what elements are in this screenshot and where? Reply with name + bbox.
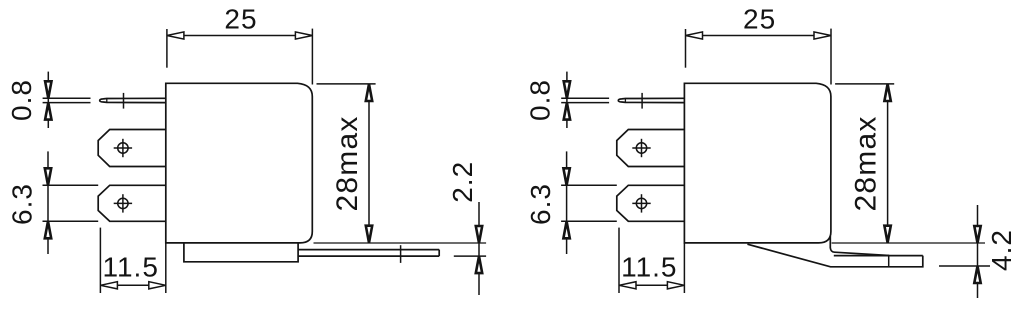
coil pin tip seam bbox=[106, 98, 108, 102]
svg-text:11.5: 11.5 bbox=[621, 252, 677, 283]
dim 11.5 right view: right arrow bbox=[667, 282, 684, 289]
dim 28max right view: dimension line bbox=[887, 84, 889, 243]
dim 2.2: dimension line bbox=[478, 202, 480, 295]
svg-text:0.8: 0.8 bbox=[525, 79, 556, 121]
lower quick-connect terminal (right view) bbox=[617, 185, 685, 221]
left view group bbox=[6, 3, 376, 293]
dim 4.2: lower extension line bbox=[939, 265, 990, 267]
svg-text:11.5: 11.5 bbox=[102, 252, 158, 283]
svg-text:6.3: 6.3 bbox=[7, 183, 38, 225]
dim 25: right arrow bbox=[295, 32, 312, 39]
dim 25: left arrow bbox=[167, 32, 184, 39]
dim 25: left extension line bbox=[166, 29, 168, 68]
upper terminal hole (right view) bbox=[632, 139, 650, 157]
dim 11.5 right view: dimension line bbox=[619, 284, 684, 286]
dim 6.3 right view: extension lines bbox=[561, 184, 617, 186]
dim 11.5: left arrow bbox=[100, 282, 117, 289]
dim 25: dimension line bbox=[167, 35, 313, 37]
dim 28max: dimension line bbox=[368, 84, 370, 243]
tick mark on bracket (bend line) bbox=[888, 255, 890, 268]
upper quick-connect terminal bbox=[98, 130, 166, 167]
coil pin tip seam (right view) bbox=[624, 98, 626, 102]
dim 6.3 right view: lower arrow bbox=[563, 221, 569, 238]
dim 4.2: dimension line bbox=[977, 205, 979, 298]
dim 6.3: dimension line bbox=[47, 151, 49, 254]
dim 28max right view: bottom arrow bbox=[884, 226, 890, 243]
left view: flat blade terminal bbox=[299, 250, 440, 257]
upper terminal hole bbox=[114, 139, 132, 157]
dim 11.5 right view: right extension line bbox=[683, 243, 685, 293]
dim 25 right view: right extension line bbox=[830, 29, 832, 85]
dim 6.3: extension lines bbox=[43, 184, 99, 186]
dim 2.2: lower arrow bbox=[476, 256, 482, 273]
dim 25 right view: left arrow bbox=[686, 32, 703, 39]
left view: bottom reference extension line bbox=[314, 242, 487, 244]
svg-text:2.2: 2.2 bbox=[447, 161, 478, 203]
svg-text:25: 25 bbox=[224, 3, 257, 34]
relay body (left view) bbox=[166, 83, 312, 243]
svg-text:25: 25 bbox=[743, 3, 776, 34]
dim 0.8 right view: dimension line bbox=[566, 72, 568, 128]
dim 0.8 right view: extension lines bbox=[561, 97, 609, 99]
coil pin (top terminal) bbox=[100, 98, 166, 102]
right view: mounting bracket outer edge bbox=[747, 244, 922, 267]
dim 6.3: lower arrow bbox=[45, 221, 51, 238]
dim 25 right view: dimension line bbox=[686, 35, 832, 37]
lower terminal hole (right view) bbox=[632, 194, 650, 212]
dim 6.3 right view: dimension line bbox=[566, 151, 568, 254]
dim 25: right extension line bbox=[311, 29, 313, 85]
coil pin (top terminal, right view) bbox=[618, 98, 684, 102]
dim 2.2: upper arrow bbox=[476, 226, 482, 243]
dim 0.8: dimension line bbox=[47, 72, 49, 128]
svg-text:6.3: 6.3 bbox=[525, 183, 556, 225]
dim 0.8: upper arrow bbox=[45, 81, 51, 98]
right view: bottom reference extension line bbox=[832, 242, 985, 244]
dim 11.5 right view: left extension line bbox=[618, 228, 620, 293]
dim 2.2: lower extension line bbox=[454, 255, 486, 257]
dim 4.2: upper arrow bbox=[974, 226, 980, 243]
dim 0.8: lower arrow bbox=[45, 103, 51, 120]
tick mark on coil pin (right view) bbox=[641, 93, 643, 109]
svg-text:28max: 28max bbox=[850, 115, 883, 211]
dim 28max: bottom arrow bbox=[366, 226, 372, 243]
dim 25 right view: left extension line bbox=[685, 29, 687, 68]
dim 11.5: dimension line bbox=[100, 284, 165, 286]
dim 0.8 right view: upper arrow bbox=[564, 81, 570, 98]
bracket tab top edge bbox=[834, 255, 923, 257]
right view: mounting bracket inner edge bbox=[830, 236, 889, 256]
dim 11.5 right view: left arrow bbox=[619, 282, 636, 289]
svg-text:28max: 28max bbox=[331, 115, 364, 211]
lower terminal hole bbox=[114, 194, 132, 212]
relay body (right view) bbox=[684, 83, 831, 243]
left view: base flange bbox=[184, 243, 298, 262]
dim 25 right view: right arrow bbox=[814, 32, 831, 39]
dim 0.8: extension lines bbox=[43, 97, 91, 99]
dim 28max right view: top arrow bbox=[884, 84, 890, 101]
dim 28max: top extension line bbox=[317, 83, 376, 85]
dim 6.3: upper arrow bbox=[45, 168, 51, 185]
svg-text:0.8: 0.8 bbox=[6, 79, 37, 121]
dim 0.8 right view: lower arrow bbox=[564, 103, 570, 120]
lower quick-connect terminal bbox=[98, 185, 166, 221]
upper quick-connect terminal (right view) bbox=[617, 130, 685, 167]
dim 28max right view: top extension line bbox=[835, 83, 894, 85]
dim 11.5: left extension line bbox=[99, 228, 101, 293]
dim 4.2: lower arrow bbox=[974, 266, 980, 283]
dim 11.5: right arrow bbox=[149, 282, 166, 289]
dim 11.5: right extension line bbox=[165, 243, 167, 293]
tick mark on coil pin bbox=[123, 93, 125, 109]
dim 6.3 right view: upper arrow bbox=[563, 168, 569, 185]
svg-text:4.2: 4.2 bbox=[986, 229, 1017, 271]
right view group (same relay, bracket version) bbox=[525, 3, 895, 293]
tick mark on flat blade bbox=[400, 245, 402, 263]
dim 28max: top arrow bbox=[366, 84, 372, 101]
